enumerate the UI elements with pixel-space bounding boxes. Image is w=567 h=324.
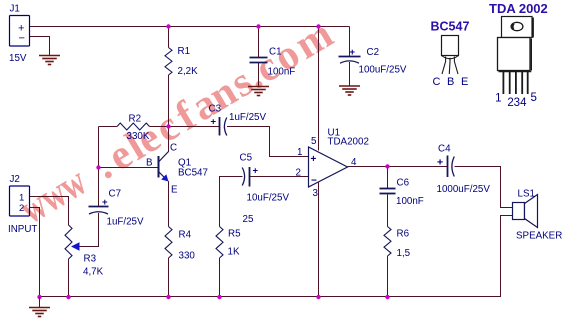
svg-text:1K: 1K	[228, 247, 240, 258]
svg-text:C3: C3	[209, 104, 222, 115]
ground at bottom rail	[39, 297, 41, 308]
wire C6 branch	[387, 167, 389, 189]
svg-text:B: B	[146, 158, 153, 169]
speaker LS1	[513, 203, 525, 220]
wire R1 bottom to node B	[168, 75, 170, 127]
node VCC-C1 junction	[256, 24, 260, 28]
svg-text:100uF/25V: 100uF/25V	[359, 65, 407, 76]
svg-text:C6: C6	[397, 178, 410, 189]
svg-text:3: 3	[514, 97, 520, 109]
wire C3 to U1 pin1	[227, 127, 308, 157]
svg-text:15V: 15V	[9, 53, 27, 64]
wire C5 to R5	[220, 177, 243, 227]
wire C1 to ground	[258, 63, 260, 87]
svg-text:C: C	[170, 143, 177, 154]
svg-text:4: 4	[520, 97, 527, 109]
connector J1	[10, 16, 30, 47]
node B junction (R1/R2/C3)	[166, 124, 170, 128]
svg-text:E: E	[171, 185, 178, 196]
svg-text:4,7K: 4,7K	[83, 267, 104, 278]
svg-text:330: 330	[179, 251, 196, 262]
capacitor C4	[447, 156, 449, 178]
svg-text:1: 1	[495, 93, 501, 105]
wire VCC top rail	[30, 26, 350, 28]
wire C4 to speaker	[455, 167, 513, 208]
wire J2 pin2 to ground	[30, 208, 40, 298]
svg-text:BC547: BC547	[178, 168, 208, 179]
wire R5 to ground rail	[219, 258, 221, 297]
wire R2 right lead	[150, 126, 169, 128]
svg-text:+: +	[253, 166, 259, 177]
ground at J1	[39, 55, 60, 57]
svg-text:100nF: 100nF	[268, 67, 296, 78]
wire U1 output	[348, 166, 448, 168]
resistor R3	[65, 225, 72, 259]
node gnd-R3 junction	[66, 295, 70, 299]
svg-text:E: E	[461, 76, 468, 88]
wire R2 left lead	[99, 126, 118, 128]
wire R4 to ground rail	[168, 258, 170, 297]
wire ground rail	[40, 296, 501, 298]
svg-text:100nF: 100nF	[396, 196, 424, 207]
svg-text:R3: R3	[84, 254, 97, 265]
capacitor C7	[89, 206, 109, 208]
wire node A column	[98, 127, 100, 168]
capacitor C6	[380, 188, 396, 190]
wire node B to C3	[169, 126, 220, 128]
svg-text:C5: C5	[240, 153, 253, 164]
wire C7 to wiper	[80, 213, 99, 247]
BC547 package	[442, 36, 459, 56]
svg-text:+: +	[350, 47, 356, 58]
svg-text:4: 4	[351, 157, 357, 168]
svg-text:+: +	[437, 157, 443, 169]
wire base of Q1	[99, 167, 159, 169]
svg-text:LS1: LS1	[518, 189, 535, 200]
wire R1 top	[168, 27, 170, 48]
wire C1 top	[258, 27, 260, 58]
svg-text:2,2K: 2,2K	[178, 66, 199, 77]
wire C2 branch down	[349, 27, 351, 57]
wire U1 pin3 to ground rail	[318, 183, 320, 298]
svg-text:330K: 330K	[127, 131, 150, 142]
resistor R1	[165, 48, 172, 76]
svg-text:+: +	[311, 154, 317, 165]
svg-text:1000uF/25V: 1000uF/25V	[437, 184, 491, 195]
wire node B to Q1 collector	[168, 127, 170, 153]
node gnd-R5 junction	[217, 295, 221, 299]
capacitor C1	[250, 57, 268, 59]
wire node A to C7	[98, 168, 100, 207]
wire Q1 emitter to R4	[168, 181, 170, 227]
svg-text:−: −	[19, 33, 25, 45]
wire J2 pin1 to R3	[30, 197, 69, 226]
op-amp U1	[309, 147, 348, 187]
node gnd-pin3 junction	[316, 295, 320, 299]
svg-text:B: B	[447, 76, 454, 88]
wire J1 minus	[30, 37, 50, 56]
svg-text:J2: J2	[10, 174, 20, 185]
capacitor C2	[339, 56, 361, 58]
svg-text:R6: R6	[397, 229, 410, 240]
wire C6 to R6	[387, 195, 389, 227]
svg-text:2: 2	[19, 203, 24, 214]
svg-text:BC547: BC547	[431, 20, 470, 34]
node gnd-R4 junction	[166, 295, 170, 299]
ground at C1	[248, 86, 269, 88]
wire U1 pin5 supply	[318, 27, 320, 151]
svg-text:+: +	[211, 117, 217, 128]
capacitor C3	[219, 117, 221, 136]
svg-text:R5: R5	[228, 229, 241, 240]
svg-text:C7: C7	[109, 189, 122, 200]
wire R3 bottom	[68, 259, 70, 297]
decorative watermark (background)	[12, 11, 341, 233]
connector J2	[10, 186, 30, 216]
svg-text:2: 2	[296, 168, 301, 179]
node VCC-R1 junction	[166, 24, 170, 28]
svg-text:C2: C2	[367, 47, 380, 58]
wire R6 to ground rail	[387, 256, 389, 297]
wire U1 pin2 to C5	[250, 176, 308, 178]
svg-text:1uF/25V: 1uF/25V	[107, 217, 145, 228]
resistor R6	[384, 227, 391, 256]
node gnd-J2 junction	[37, 295, 41, 299]
svg-text:J1: J1	[10, 4, 20, 15]
svg-text:R1: R1	[178, 46, 191, 57]
svg-text:25: 25	[243, 214, 254, 225]
svg-text:R4: R4	[179, 230, 192, 241]
svg-text:SPEAKER: SPEAKER	[516, 231, 562, 242]
svg-text:TDA2002: TDA2002	[328, 137, 369, 148]
R3 wiper arrow	[71, 242, 80, 250]
svg-text:1,5: 1,5	[397, 248, 411, 259]
svg-text:R2: R2	[129, 114, 142, 125]
svg-text:5: 5	[531, 92, 537, 104]
ground at C2	[339, 85, 360, 87]
svg-text:−: −	[311, 176, 317, 187]
node A junction (R2/base/C7)	[96, 165, 100, 169]
svg-text:+: +	[102, 197, 108, 208]
resistor R4	[165, 227, 172, 259]
svg-text:C4: C4	[438, 144, 451, 155]
svg-text:10uF/25V: 10uF/25V	[247, 193, 290, 204]
resistor R5	[216, 227, 223, 259]
svg-text:1: 1	[297, 147, 302, 158]
svg-text:3: 3	[313, 188, 319, 199]
node gnd-R6 junction	[385, 295, 389, 299]
transistor Q1	[158, 156, 160, 178]
capacitor C5	[249, 167, 251, 187]
node output junction (C6)	[385, 164, 389, 168]
svg-text:1uF/25V: 1uF/25V	[229, 112, 267, 123]
svg-text:TDA 2002: TDA 2002	[489, 1, 548, 16]
TDA2002 package	[502, 17, 533, 38]
wire speaker return	[501, 216, 513, 298]
resistor R2	[117, 123, 150, 130]
svg-text:INPUT: INPUT	[8, 224, 37, 235]
svg-text:1: 1	[19, 193, 24, 204]
svg-text:5: 5	[311, 136, 317, 147]
node VCC-pin5 junction	[316, 24, 320, 28]
wire C2 to ground	[349, 62, 351, 86]
svg-text:C: C	[433, 76, 441, 88]
svg-text:C1: C1	[269, 47, 282, 58]
